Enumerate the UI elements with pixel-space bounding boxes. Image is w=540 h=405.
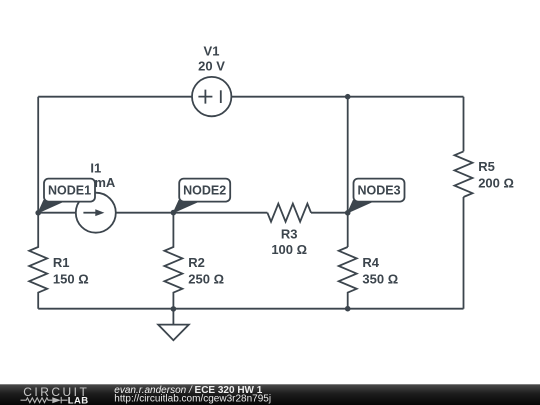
svg-text:http://circuitlab.com/cgew3r28: http://circuitlab.com/cgew3r28n795j — [114, 394, 271, 405]
svg-text:V1: V1 — [204, 44, 220, 59]
svg-text:350 Ω: 350 Ω — [362, 271, 398, 286]
svg-text:NODE3: NODE3 — [357, 184, 400, 198]
svg-text:250 Ω: 250 Ω — [188, 271, 224, 286]
svg-text:I1: I1 — [90, 160, 101, 175]
wire top (node at V1 across top) — [38, 96, 463, 98]
node dot NODE3 — [345, 210, 351, 216]
svg-text:100 Ω: 100 Ω — [271, 242, 307, 257]
svg-text:200 Ω: 200 Ω — [478, 176, 514, 191]
svg-text:R5: R5 — [478, 159, 495, 174]
node dot NODE1 — [35, 210, 41, 216]
resistor R2 — [164, 213, 182, 309]
svg-text:150 Ω: 150 Ω — [53, 271, 89, 286]
wire right vertical — [463, 97, 465, 309]
voltage source V1 — [192, 77, 231, 116]
svg-text:R4: R4 — [362, 255, 379, 270]
wire bottom horizontal — [38, 308, 463, 310]
node flag NODE1 — [38, 179, 95, 213]
node flag NODE3 — [348, 179, 405, 213]
logo squiggle wire with resistor and diode — [21, 397, 68, 404]
resistor R3 — [267, 204, 311, 222]
svg-text:R2: R2 — [188, 255, 205, 270]
junction dot ground — [171, 306, 177, 312]
current source I1 — [76, 193, 116, 233]
svg-text:NODE1: NODE1 — [48, 184, 91, 198]
svg-text:R3: R3 — [281, 227, 298, 242]
wire left vertical (top-left corner down) — [37, 97, 39, 213]
svg-text:LAB: LAB — [68, 396, 89, 405]
ground — [158, 309, 189, 340]
wire middle horizontal NODE1-NODE2-NODE3 — [38, 212, 348, 214]
junction dot top NODE3 column — [345, 94, 351, 100]
node dot NODE2 — [171, 210, 177, 216]
resistor R1 — [29, 213, 47, 309]
node flag NODE2 — [173, 179, 230, 213]
resistor R5 — [455, 151, 473, 197]
svg-text:NODE2: NODE2 — [183, 184, 226, 198]
svg-text:R1: R1 — [53, 255, 70, 270]
wire NODE3 vertical — [347, 97, 349, 247]
junction dot bottom NODE3 column — [345, 306, 351, 312]
resistor R4 — [339, 247, 357, 309]
svg-text:20 V: 20 V — [198, 58, 225, 73]
